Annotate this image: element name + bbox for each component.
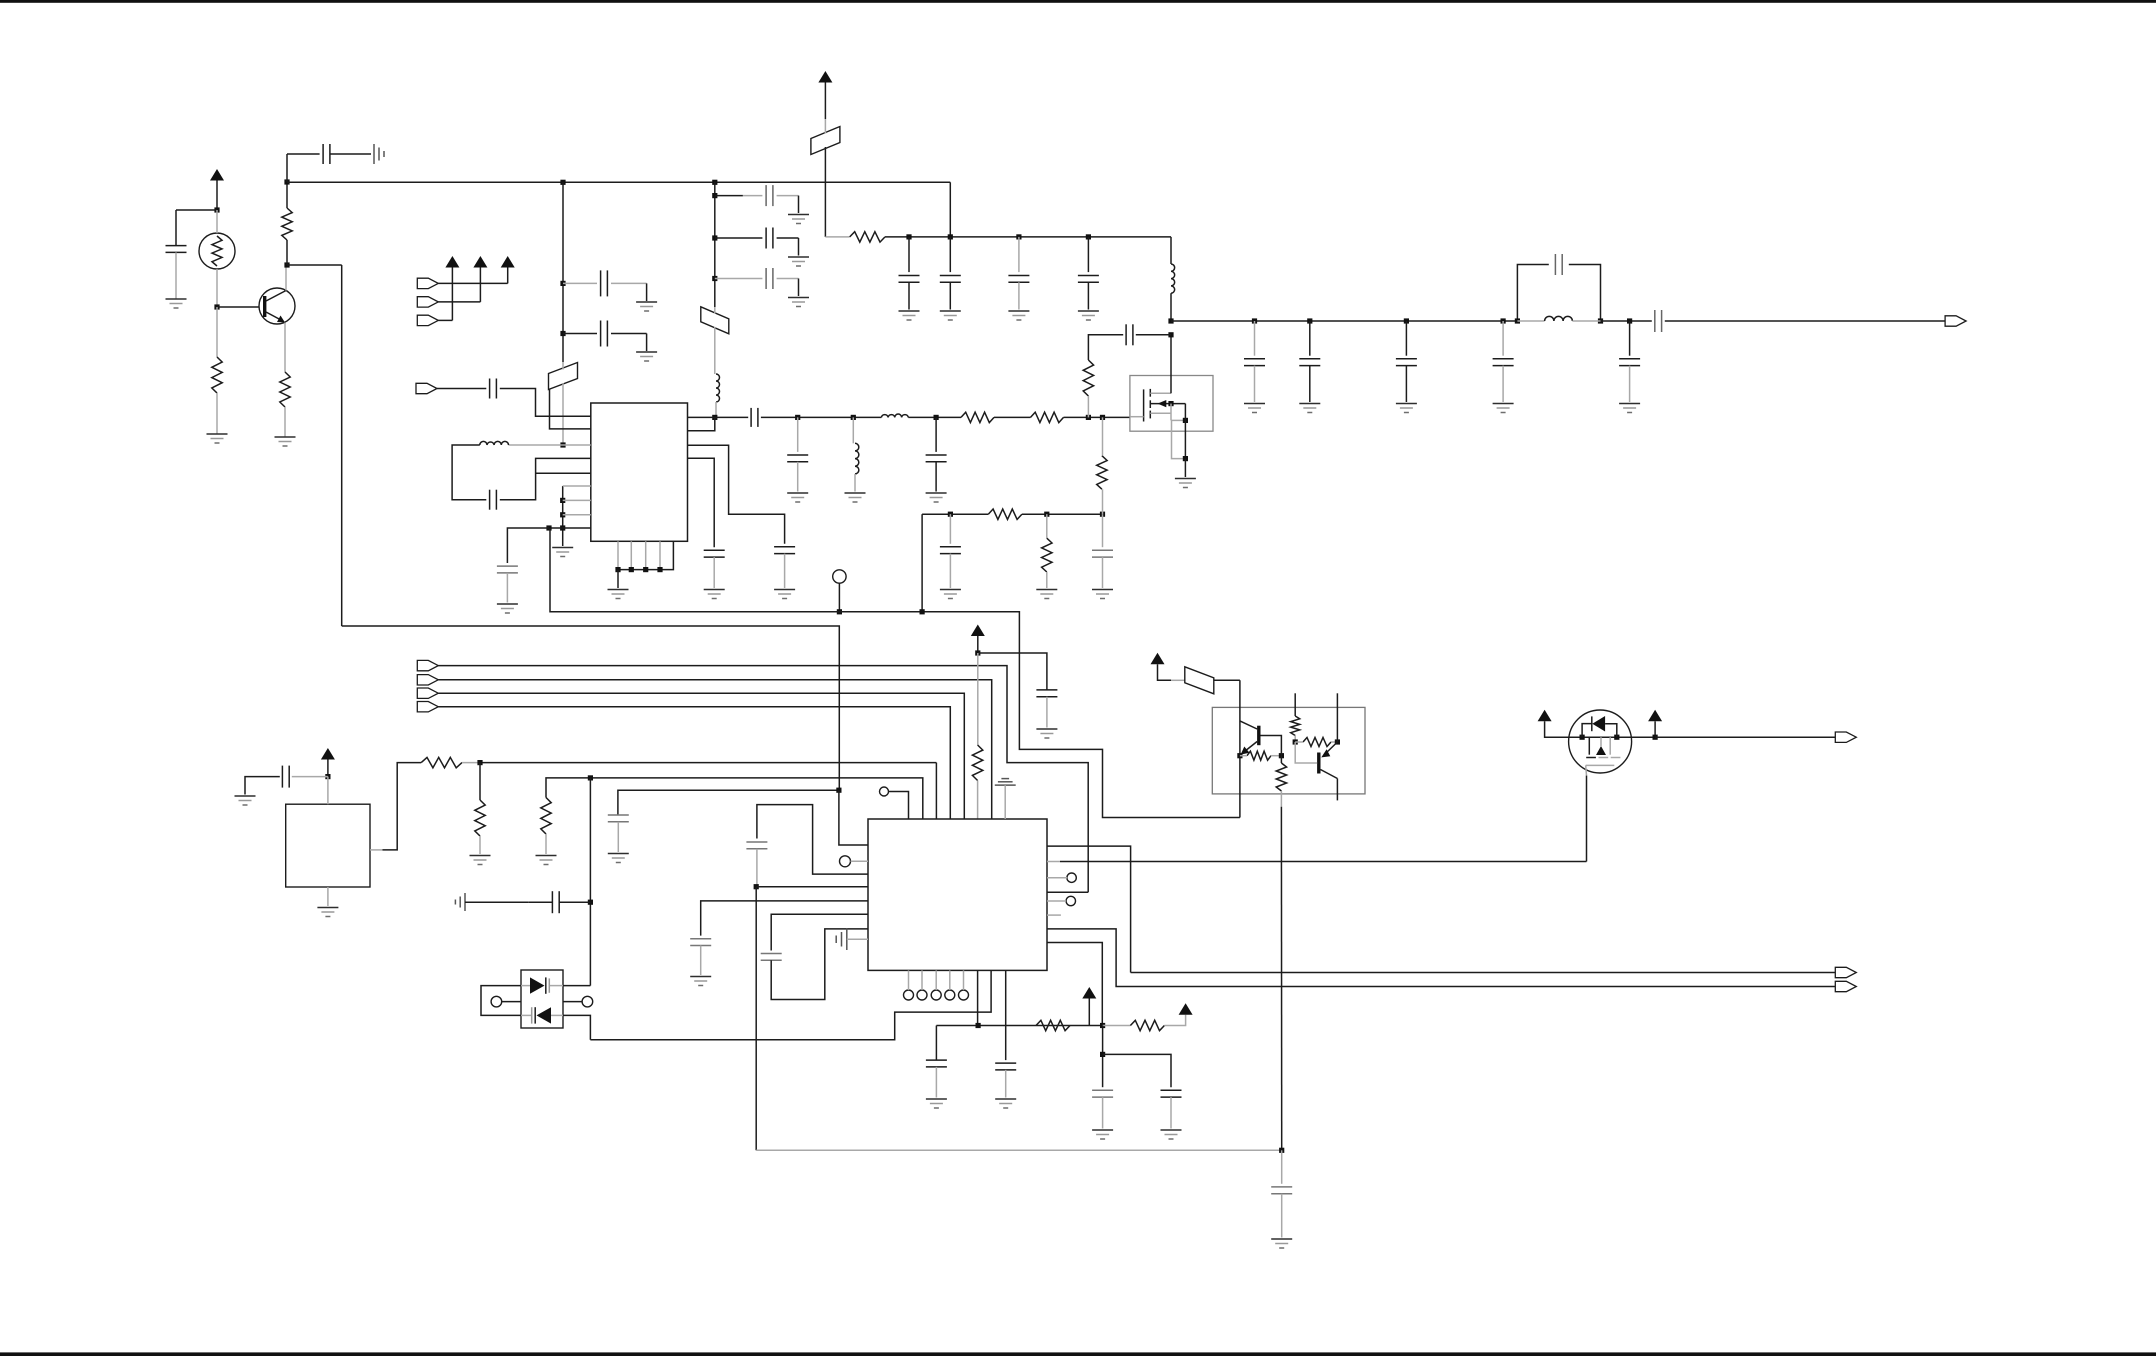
power symbol <box>473 256 487 302</box>
resistor R9 <box>1097 456 1107 490</box>
node circle N4 <box>1067 873 1076 882</box>
node junction <box>934 415 939 420</box>
wire pin <box>847 938 868 940</box>
wire pin <box>549 527 591 529</box>
wire q2 stub1 <box>1294 693 1296 716</box>
capacitor C15 <box>751 408 758 427</box>
capacitor C40 <box>1161 1090 1182 1097</box>
power symbol VCC9 <box>1648 710 1662 737</box>
capacitor C8 <box>899 276 920 283</box>
capacitor C35 <box>690 939 711 946</box>
wire pin <box>1047 877 1067 879</box>
wire <box>949 970 951 990</box>
output connector J11 <box>1835 732 1856 742</box>
node junction <box>975 650 980 655</box>
wire outA line <box>1131 972 1836 974</box>
ground <box>1299 404 1320 413</box>
node junction <box>588 775 593 780</box>
ground <box>690 977 711 986</box>
wire tank loop <box>452 445 486 500</box>
node junction <box>629 567 634 572</box>
node circle N5 <box>1066 896 1075 905</box>
capacitor C19 <box>704 550 725 557</box>
input connector J10 <box>417 702 438 712</box>
node junction <box>712 276 717 281</box>
ground <box>275 437 296 446</box>
resistor R12 <box>421 757 462 767</box>
wire pin <box>1047 900 1066 902</box>
wire <box>216 307 218 357</box>
wire <box>1629 366 1631 402</box>
wire <box>908 970 910 990</box>
wire <box>1103 1025 1131 1027</box>
wire pin <box>563 444 591 446</box>
wire rail RF1 <box>688 416 749 418</box>
wire bus1 <box>438 666 1088 893</box>
node circle N6 <box>491 996 502 1007</box>
node junction <box>712 415 717 420</box>
output connector J12 <box>1835 967 1856 977</box>
wire <box>1087 396 1089 417</box>
node junction <box>1086 415 1091 420</box>
wire <box>756 849 758 887</box>
wire <box>921 970 923 990</box>
wire <box>715 195 763 197</box>
wire <box>908 237 910 272</box>
resistor R6 <box>1031 412 1064 422</box>
power symbol VCC2 <box>818 71 832 119</box>
wire <box>713 557 715 588</box>
wire pack row1 <box>521 985 563 987</box>
ferrite bead FB1 <box>549 363 578 390</box>
node junction <box>477 760 482 765</box>
wire <box>839 790 868 845</box>
wire <box>1102 1026 1104 1088</box>
wire <box>908 282 910 309</box>
wire <box>1295 741 1337 743</box>
node junction <box>560 498 565 503</box>
power symbol VCC1 <box>210 169 224 210</box>
wire top-rail drop <box>949 182 951 237</box>
wire rail-2 <box>825 236 849 238</box>
input connector J2 <box>417 278 438 288</box>
wire <box>714 182 716 307</box>
wire <box>1102 489 1104 514</box>
ground <box>940 311 961 320</box>
wire <box>479 763 481 800</box>
node junction <box>1252 318 1257 323</box>
capacitor C3 <box>601 270 608 296</box>
chassis ground rotated <box>836 929 847 951</box>
node junction <box>643 567 648 572</box>
node junction <box>836 788 841 793</box>
power symbol VCC7 <box>1151 653 1172 681</box>
wire <box>1171 679 1185 681</box>
wire <box>771 929 868 1000</box>
wire <box>797 462 799 492</box>
ground <box>608 854 629 863</box>
wire <box>1046 697 1048 728</box>
output connector J13 <box>1835 981 1856 991</box>
ground <box>788 298 809 307</box>
node junction <box>1086 234 1091 239</box>
capacitor C6 <box>766 228 773 249</box>
ground <box>235 796 256 805</box>
wire <box>217 306 259 308</box>
wire <box>1502 366 1504 402</box>
wire shunt <box>797 417 799 452</box>
wire pin <box>756 886 868 888</box>
wire <box>284 407 286 437</box>
node junction <box>1100 1052 1105 1057</box>
capacitor C22 <box>1126 324 1133 345</box>
wire <box>854 474 856 492</box>
capacitor C4 <box>601 321 608 347</box>
wire <box>1629 321 1631 356</box>
inductor L3 <box>881 414 908 417</box>
wire <box>1018 282 1020 309</box>
node junction <box>795 415 800 420</box>
node junction <box>712 180 717 185</box>
resistor R13 <box>475 800 485 836</box>
wire <box>1087 282 1089 309</box>
node junction <box>1100 1023 1105 1028</box>
wire <box>1103 1054 1171 1087</box>
wire bottom gray rail <box>756 1149 1281 1151</box>
wire emitter Q1 <box>284 323 286 373</box>
chassis ground rotated <box>374 144 384 164</box>
resistor R1 <box>212 357 222 393</box>
wire <box>1004 785 1006 819</box>
MOSFET internals <box>1586 737 1621 765</box>
diode D1b <box>532 1007 551 1023</box>
ground <box>1244 404 1265 413</box>
node junction <box>1100 415 1105 420</box>
wire q2 stub2 <box>1336 693 1338 742</box>
capacitor C41 <box>1271 1187 1292 1194</box>
wire <box>245 777 280 795</box>
wire <box>465 901 528 903</box>
wire <box>1136 334 1171 336</box>
resistor R14 <box>541 798 551 835</box>
power symbol <box>445 256 459 320</box>
node junction <box>1183 418 1188 423</box>
capacitor C1 <box>166 246 187 253</box>
wire <box>1517 320 1544 322</box>
capacitor C30 <box>1036 690 1057 697</box>
MOSFET Q2 package box <box>1130 376 1213 432</box>
wire <box>507 528 549 563</box>
wire <box>1046 572 1048 588</box>
resistor R4 <box>850 232 885 242</box>
wire <box>500 458 591 499</box>
IC U3 MCU <box>868 819 1047 970</box>
wire long down <box>755 887 757 1151</box>
wire <box>761 416 882 418</box>
wire <box>1405 321 1407 356</box>
transistor pack box <box>1212 707 1365 794</box>
resistor R17 <box>1247 751 1271 760</box>
capacitor C34 <box>746 842 767 849</box>
capacitor C18 <box>774 547 795 554</box>
capacitor C37 <box>926 1060 947 1067</box>
node circle <box>959 990 969 1000</box>
wire <box>977 653 979 745</box>
wire <box>618 790 839 815</box>
wire out <box>370 763 421 850</box>
wire <box>545 834 547 854</box>
ground <box>636 352 657 361</box>
node junction <box>754 884 759 889</box>
capacitor C13 <box>490 490 497 510</box>
capacitor C25 <box>1396 359 1417 366</box>
power symbol VCC3 <box>971 625 985 654</box>
wire <box>562 182 564 362</box>
transistor Q4 <box>1295 742 1337 800</box>
wire pins bottom <box>618 541 673 569</box>
wire pin <box>550 389 591 429</box>
wire <box>1102 1097 1104 1128</box>
wire riser <box>286 154 288 182</box>
wire <box>1405 366 1407 402</box>
node junction <box>1168 401 1173 406</box>
capacitor C14 <box>497 566 518 573</box>
capacitor C21 <box>1092 550 1113 557</box>
node junction <box>1279 1148 1284 1153</box>
wire <box>292 776 328 778</box>
wire pin <box>1047 891 1088 893</box>
wire <box>1022 513 1103 515</box>
wire <box>949 554 951 588</box>
capacitor C5 <box>766 185 773 206</box>
node junction <box>560 512 565 517</box>
wire <box>438 319 452 321</box>
node junction <box>1598 318 1603 323</box>
wire to antenna <box>1665 320 1945 322</box>
wire <box>563 333 597 335</box>
wire <box>715 278 763 280</box>
resistor R10 <box>1083 360 1093 396</box>
wire <box>1164 1015 1185 1026</box>
wire <box>506 573 508 603</box>
wire rail L626 <box>342 626 840 790</box>
wire source loop <box>1172 404 1186 459</box>
wire <box>1064 416 1130 418</box>
wire <box>949 237 951 272</box>
wire pin <box>536 472 591 474</box>
wire rail bottom <box>936 1025 1102 1027</box>
wire <box>714 307 716 374</box>
wire <box>994 416 1031 418</box>
wire gate drop <box>1585 765 1588 861</box>
wire pin step <box>590 970 991 1039</box>
wire <box>1088 335 1123 360</box>
node junction <box>1614 735 1619 740</box>
ground <box>704 590 725 599</box>
wire <box>176 210 217 246</box>
wire <box>327 887 329 906</box>
ground <box>845 493 866 502</box>
ground <box>1092 590 1113 599</box>
wire bus2 <box>438 680 991 819</box>
transistor Q3 <box>1240 721 1261 755</box>
wire <box>777 238 799 256</box>
ground <box>1493 404 1514 413</box>
wire <box>885 236 1171 238</box>
node junction <box>1279 753 1284 758</box>
power symbol <box>501 256 515 283</box>
wire <box>949 514 951 544</box>
ground <box>1092 1130 1113 1139</box>
wire pack left <box>481 986 521 1016</box>
capacitor C32 <box>552 891 559 913</box>
wire <box>1309 321 1311 356</box>
wire pin loop2 <box>771 914 868 950</box>
node junction <box>657 567 662 572</box>
wire drain <box>1170 335 1172 394</box>
node junction <box>837 609 842 614</box>
wire collector Q1 <box>285 265 287 291</box>
node circle <box>931 990 941 1000</box>
ground <box>207 434 228 443</box>
resistor R8 <box>1042 538 1052 572</box>
wire <box>479 836 481 854</box>
wire <box>1170 1097 1172 1128</box>
ground <box>899 311 920 320</box>
node circle N1 <box>833 570 846 583</box>
node junction <box>560 331 565 336</box>
wire pin <box>1005 970 1007 1060</box>
ground <box>788 215 809 224</box>
wire <box>715 237 763 239</box>
input connector J9 <box>417 688 438 698</box>
ground <box>788 257 809 266</box>
wire <box>921 514 923 612</box>
power symbol VCC5 <box>1082 987 1096 1026</box>
flipped ground <box>995 779 1016 786</box>
wire <box>1281 1150 1283 1184</box>
power symbol VCC6 <box>1179 1003 1193 1015</box>
wire long collector branch <box>287 265 342 626</box>
wire <box>438 301 480 303</box>
node junction <box>1237 753 1242 758</box>
input connector J8 <box>417 675 438 685</box>
wire <box>611 283 647 301</box>
chassis ground rotated <box>455 893 465 911</box>
wire <box>1240 755 1282 757</box>
ground <box>1036 729 1057 738</box>
capacitor C17 <box>926 455 947 462</box>
resistor R11 <box>972 745 982 781</box>
wire <box>589 778 591 986</box>
inductor L4 <box>855 443 859 474</box>
wire <box>1601 320 1652 322</box>
node circle <box>945 990 955 1000</box>
inductor L5 <box>1171 264 1175 293</box>
node junction <box>1335 739 1340 744</box>
wire shunt <box>935 417 937 452</box>
capacitor C27 <box>1555 254 1562 275</box>
wire <box>777 196 799 213</box>
wire output P <box>1655 736 1835 738</box>
capacitor C10 <box>1008 276 1029 283</box>
node junction <box>560 281 565 286</box>
node junction <box>1100 512 1105 517</box>
node junction <box>1293 739 1298 744</box>
ferrite bead FB4 <box>1185 667 1214 694</box>
wire <box>1184 459 1186 477</box>
capacitor C9 <box>940 276 961 283</box>
power symbol VCC4 <box>321 748 335 777</box>
node circle N7 <box>582 996 593 1007</box>
node junction <box>1515 318 1520 323</box>
wire rail LDO2 <box>546 778 923 819</box>
node junction <box>948 234 953 239</box>
node junction <box>1307 318 1312 323</box>
IC U1 <box>591 403 688 541</box>
resistor R16 <box>1130 1020 1164 1030</box>
capacitor C36 <box>761 954 782 961</box>
wire <box>562 362 564 445</box>
ground <box>470 856 491 865</box>
node junction <box>1183 456 1188 461</box>
wire rail mid <box>922 513 988 515</box>
resistor R20 <box>1303 738 1331 747</box>
ground <box>317 908 338 917</box>
capacitor C24 <box>1299 359 1320 366</box>
resistor R2 <box>280 372 290 407</box>
wire rail L611 <box>550 528 1240 818</box>
wire <box>500 389 591 417</box>
wire <box>1102 417 1104 455</box>
ground <box>1161 1130 1182 1139</box>
node junction <box>712 235 717 240</box>
node junction <box>948 512 953 517</box>
wire <box>1294 736 1296 743</box>
wire <box>1572 320 1600 322</box>
node junction A4 <box>284 179 289 184</box>
wire body tie <box>1171 404 1185 421</box>
wire <box>437 388 486 390</box>
wire pin <box>563 514 591 516</box>
IC U2 regulator <box>286 804 370 887</box>
ground <box>1008 311 1029 320</box>
wire <box>528 901 590 903</box>
wire <box>935 970 937 990</box>
wire pin stub <box>1047 914 1061 916</box>
node circle <box>917 990 927 1000</box>
wire <box>1280 756 1282 807</box>
wire <box>1087 237 1089 272</box>
wire <box>1502 321 1504 356</box>
diode pack D1 box <box>521 970 563 1028</box>
wire shunt <box>852 417 854 443</box>
wire <box>563 282 597 284</box>
node junction <box>1580 735 1585 740</box>
top border bar <box>0 0 2156 3</box>
wire gate <box>1130 416 1144 418</box>
ground <box>787 493 808 502</box>
body diode <box>1582 716 1617 737</box>
wire <box>963 970 965 990</box>
wire <box>838 583 840 612</box>
node junction <box>1044 512 1049 517</box>
capacitor C2 <box>323 144 330 164</box>
node junction <box>546 525 551 530</box>
wire <box>824 119 826 237</box>
node junction A1 <box>214 207 219 212</box>
node circle N3 <box>880 787 889 796</box>
